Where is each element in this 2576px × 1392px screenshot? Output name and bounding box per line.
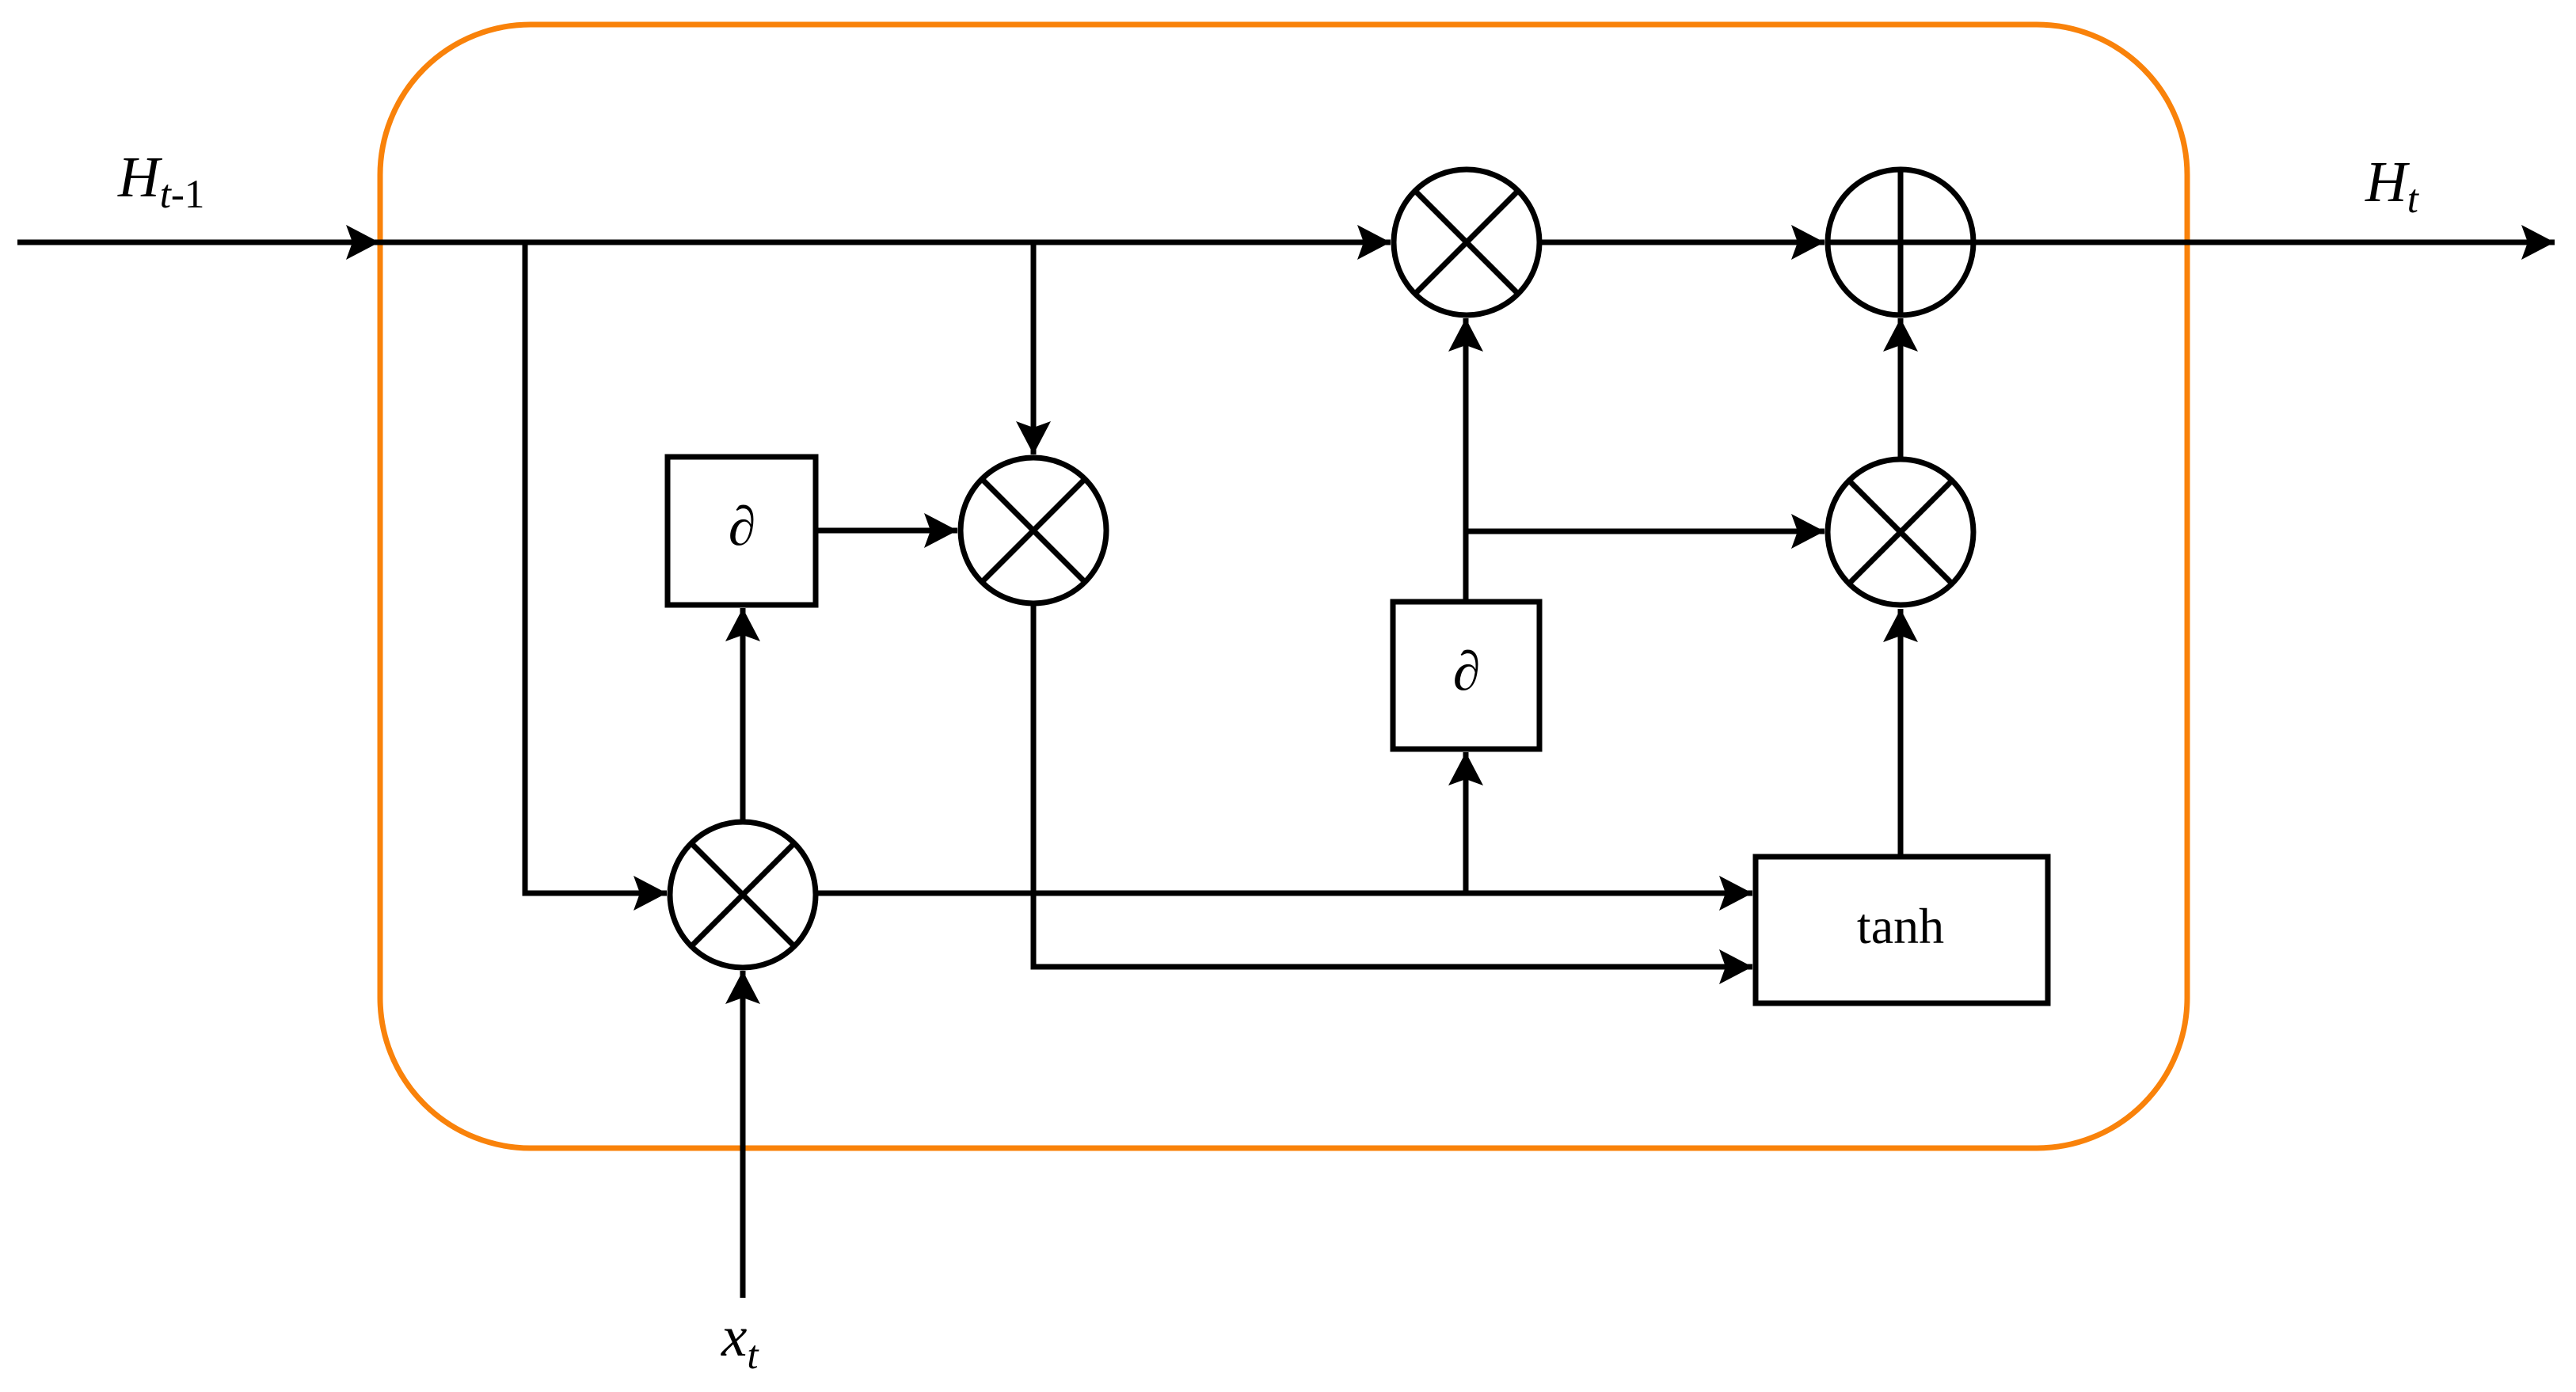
wire: multiplier M5 output right to tanh box upper input: [816, 891, 1752, 896]
wire: left branch down from main line to multiplier M5: [525, 245, 667, 893]
multiplier M5 (input product): [670, 822, 816, 968]
sigma box S1: [668, 457, 816, 605]
wire: tanh box up to multiplier M4: [1898, 609, 1904, 857]
multiplier M1 (elementwise product on state line): [1394, 169, 1539, 315]
wire: multiplier M3 output down then right to tanh box lower input: [1033, 603, 1752, 967]
multiplier M4 (candidate product): [1828, 459, 1973, 605]
wire: sigma S1 output to multiplier M3: [816, 528, 957, 534]
GRU cell boundary (orange rounded rectangle): [380, 25, 2187, 1148]
svg-text:∂: ∂: [1453, 641, 1481, 702]
svg-text:Ht-1: Ht-1: [117, 145, 204, 217]
wire: multiplier M4 up to adder A1: [1898, 318, 1904, 459]
adder A1 (elementwise sum, outputs H_t): [1828, 169, 1973, 315]
wire: H_t-1 input line into cell: [17, 240, 379, 245]
wire: sigma S2 output up to multiplier M1: [1463, 318, 1469, 602]
multiplier M3 (reset-gate product): [961, 458, 1106, 603]
wire: main state line to multiplier M1: [379, 240, 1391, 245]
svg-text:tanh: tanh: [1857, 898, 1944, 954]
wire: branch from S2 output line right to multiplier M4: [1466, 529, 1825, 534]
wire: multiplier M1 to adder A1: [1539, 240, 1825, 245]
svg-text:Ht: Ht: [2365, 150, 2420, 222]
tanh box: [1756, 857, 2048, 1003]
wire: multiplier M5 up to sigma S1: [740, 608, 746, 822]
wire: junction up from M5 output line into sigma S2: [1463, 752, 1469, 893]
wire: branch down from main line into multiplier M3: [1031, 245, 1037, 454]
wire: adder A1 output H_t line: [1973, 240, 2555, 245]
svg-text:xt: xt: [721, 1304, 759, 1378]
wire: x_t input up into multiplier M5: [740, 971, 746, 1298]
sigma box S2: [1393, 602, 1539, 749]
svg-text:∂: ∂: [729, 496, 756, 557]
